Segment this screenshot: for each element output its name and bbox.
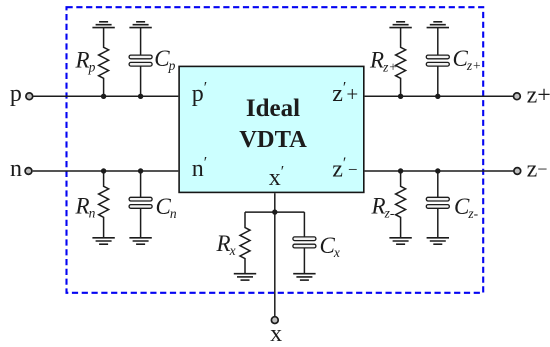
capacitor Cx	[293, 212, 316, 274]
wire x vertical	[274, 193, 276, 316]
capacitor Cn	[129, 171, 152, 238]
capacitor Cz-	[426, 171, 449, 238]
ground below Cx	[293, 274, 315, 280]
svg-text:z+: z+	[527, 82, 550, 108]
resistor Rx	[240, 212, 250, 274]
resistor Rz+	[396, 28, 406, 97]
junction node p-Cp	[138, 94, 143, 99]
wire x branch horizontal	[245, 211, 304, 213]
junction node z--Rz-	[398, 168, 403, 173]
terminal node x	[271, 317, 278, 324]
ground above Cz+	[427, 22, 449, 28]
dashed model boundary	[67, 7, 484, 293]
ground below Rz-	[389, 238, 411, 244]
svg-text:z−: z−	[527, 157, 548, 183]
svg-text:VDTA: VDTA	[239, 126, 307, 153]
junction node n-Cn	[138, 168, 143, 173]
ideal VDTA block U1	[179, 66, 364, 192]
resistor Rn	[99, 171, 109, 238]
wire z- row	[365, 170, 514, 172]
svg-text:p: p	[10, 81, 22, 107]
capacitor Cz+	[426, 28, 449, 97]
capacitor Cp	[129, 28, 152, 97]
junction node n-Rn	[101, 168, 106, 173]
ground above Cp	[129, 22, 151, 28]
svg-text:x: x	[270, 321, 282, 347]
junction node z+-Rz+	[398, 94, 403, 99]
terminal node n	[25, 168, 32, 175]
ground above Rp	[92, 22, 114, 28]
wire n row	[33, 170, 179, 172]
svg-text:n: n	[10, 156, 22, 182]
terminal node z+	[514, 93, 521, 100]
ground above Rz+	[389, 22, 411, 28]
junction node z--Cz-	[435, 168, 440, 173]
wire z+ row	[365, 95, 514, 97]
junction node z+-Cz+	[435, 94, 440, 99]
resistor Rz-	[396, 171, 406, 238]
terminal node p	[26, 93, 33, 100]
wire p row	[34, 95, 179, 97]
junction node x branch	[272, 209, 277, 214]
ground below Rx	[234, 274, 256, 280]
ground below Rn	[92, 238, 114, 244]
resistor Rp	[99, 28, 109, 97]
ground below Cz-	[427, 238, 449, 244]
ground below Cn	[129, 238, 151, 244]
svg-text:Ideal: Ideal	[246, 95, 300, 122]
junction node p-Rp	[101, 94, 106, 99]
terminal node z-	[514, 168, 521, 175]
